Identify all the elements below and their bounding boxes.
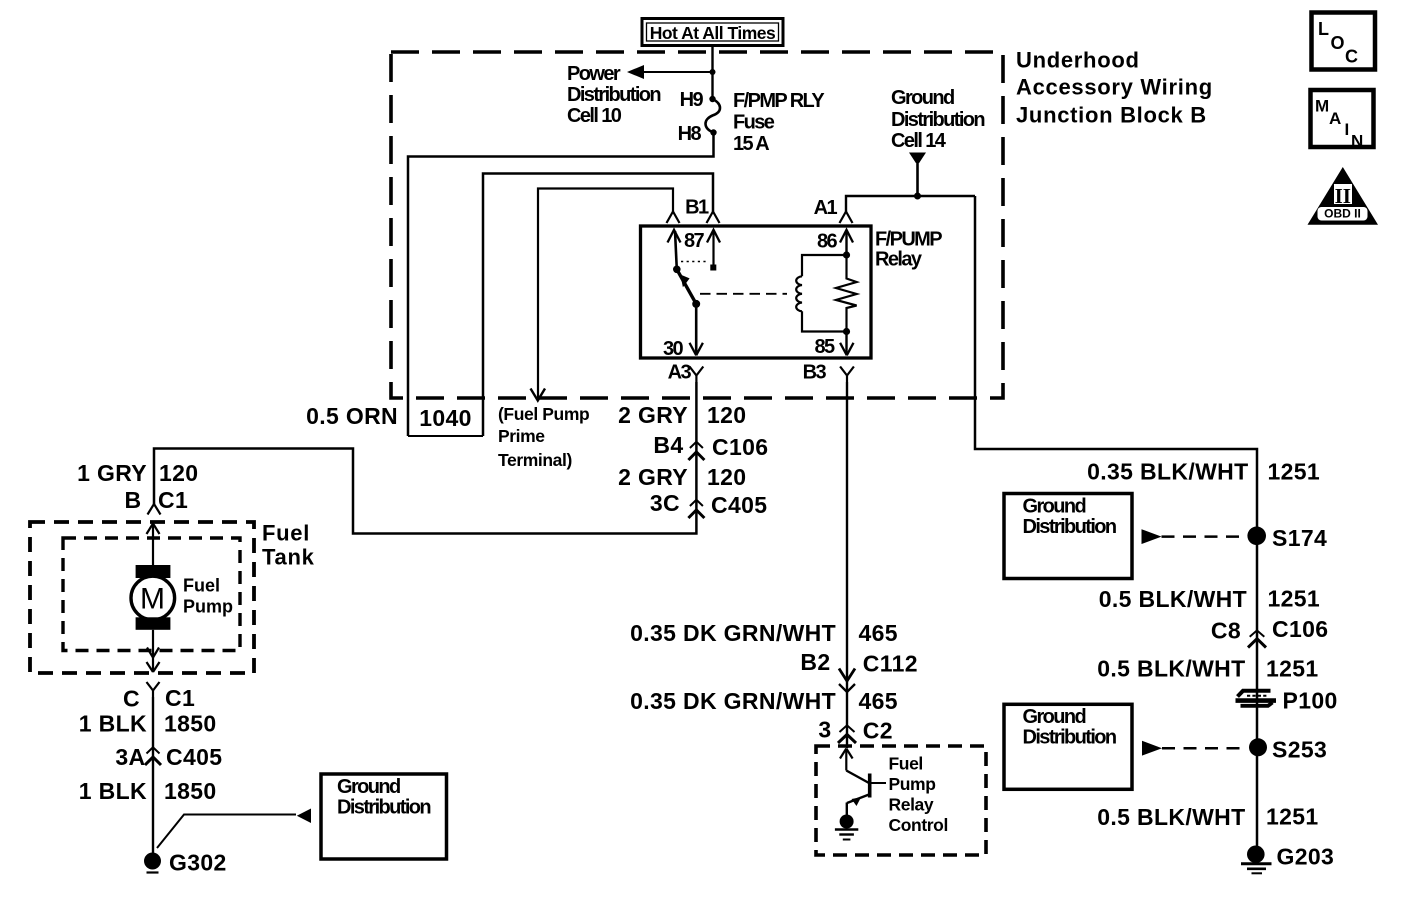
svg-text:1251: 1251: [1266, 804, 1319, 830]
relay pin 30: [663, 304, 703, 360]
svg-text:Underhood: Underhood: [1016, 48, 1140, 73]
svg-text:Fuel: Fuel: [183, 576, 220, 596]
connector 3 C2: [818, 717, 893, 744]
connector half above relay pin 87: [667, 212, 680, 224]
wire 1 BLK 1850 to G302: [152, 697, 154, 853]
label 0.5 BLK/WHT 1251: [1099, 586, 1320, 613]
svg-text:L: L: [1318, 19, 1329, 39]
svg-text:Distribution: Distribution: [337, 797, 430, 819]
svg-text:1850: 1850: [164, 778, 217, 804]
svg-text:C1: C1: [165, 685, 195, 711]
label (Fuel Pump Prime Terminal): [498, 404, 589, 470]
relay linkage dashed line: [700, 293, 787, 295]
svg-text:C405: C405: [166, 744, 222, 770]
svg-text:C112: C112: [863, 651, 918, 677]
svg-text:B3: B3: [803, 362, 827, 384]
junction block dashed box: Underhood Accessory Wiring Junction Block B: [391, 52, 1003, 398]
relay pin 85: [814, 332, 853, 359]
wire branch to left Ground Distribution: [157, 809, 311, 849]
wire from Hot At All Times to fuse H9: [711, 46, 713, 100]
svg-text:Tank: Tank: [262, 545, 315, 570]
connector A1: [814, 197, 853, 223]
svg-text:2 GRY: 2 GRY: [618, 464, 688, 490]
label 1 BLK 1850 second: [79, 778, 217, 804]
label Underhood Accessory Wiring Junction Block B: [1016, 48, 1213, 128]
arrow from Ground Distribution Cell 14: [909, 153, 926, 166]
legend OBD II triangle: [1308, 167, 1379, 225]
svg-text:Terminal): Terminal): [498, 450, 572, 470]
svg-text:F/PUMP: F/PUMP: [875, 229, 942, 251]
fuse element: [705, 99, 720, 133]
svg-text:B4: B4: [653, 432, 683, 458]
connector A3: [668, 362, 704, 384]
svg-text:B1: B1: [685, 197, 709, 219]
svg-text:(Fuel Pump: (Fuel Pump: [498, 404, 589, 424]
svg-text:465: 465: [859, 688, 898, 714]
svg-text:Pump: Pump: [183, 597, 233, 617]
svg-text:120: 120: [707, 402, 746, 428]
svg-text:Fuel: Fuel: [889, 754, 923, 774]
svg-text:F/PMP RLY: F/PMP RLY: [733, 90, 825, 112]
label 1 BLK 1850: [79, 711, 217, 737]
svg-text:Control: Control: [889, 815, 948, 835]
svg-text:N: N: [1351, 132, 1363, 151]
dashed reference arrow to S253: [1142, 741, 1248, 756]
svg-text:85: 85: [814, 336, 835, 358]
connector 3C C405: [650, 490, 768, 518]
svg-text:C106: C106: [712, 434, 768, 460]
fuel tank inner dashed box: [63, 538, 240, 651]
svg-text:B: B: [125, 487, 142, 513]
transistor Q1 fuel pump relay control: [840, 749, 886, 816]
ground inside control box: [835, 815, 858, 840]
label F/PMP RLY Fuse 15 A: [733, 90, 825, 155]
relay U1 F/PUMP Relay box: [641, 226, 872, 358]
svg-text:0.35 BLK/WHT: 0.35 BLK/WHT: [1087, 459, 1248, 485]
svg-text:Fuel: Fuel: [262, 521, 310, 546]
svg-text:87: 87: [684, 230, 705, 252]
junction dot at power distribution tap: [710, 69, 716, 75]
svg-text:G302: G302: [169, 850, 227, 876]
svg-text:Prime: Prime: [498, 426, 545, 446]
svg-text:H8: H8: [678, 123, 702, 145]
svg-text:A: A: [1329, 109, 1341, 128]
wire 0.5 ORN from fuse H8 down-left through 1040 label: [408, 133, 714, 437]
label Ground Distribution Cell 14: [891, 87, 984, 152]
svg-text:1040: 1040: [419, 405, 472, 431]
relay blade lower dot: [692, 300, 700, 308]
svg-text:O: O: [1331, 33, 1345, 53]
fuel pump motor M1: [131, 565, 175, 630]
label 0.5 BLK/WHT 1251 second: [1097, 656, 1318, 682]
svg-text:120: 120: [159, 460, 198, 486]
right Ground Distribution box lower: [1004, 704, 1132, 789]
ground G203: [1241, 844, 1334, 874]
svg-text:2 GRY: 2 GRY: [618, 402, 688, 428]
dotted line between relay contacts: [681, 261, 708, 263]
fuse F/PMP RLY 15A terminal H9: [680, 89, 716, 111]
svg-text:C: C: [123, 686, 140, 712]
wire 2 GRY 120 from A3 to fuel tank: [154, 382, 696, 534]
svg-text:3: 3: [818, 717, 831, 743]
svg-text:C405: C405: [711, 492, 767, 518]
label 0.5 BLK/WHT 1251 third: [1097, 804, 1318, 831]
svg-text:S253: S253: [1272, 737, 1327, 763]
connector 3A C405: [115, 744, 222, 770]
label 0.35 DK GRN/WHT 465: [630, 620, 898, 646]
relay coil node bottom dot: [843, 328, 850, 335]
svg-text:Distribution: Distribution: [891, 109, 984, 131]
wire into fuel tank with arrow: [147, 524, 160, 566]
svg-text:C1: C1: [158, 487, 188, 513]
svg-text:0.35 DK GRN/WHT: 0.35 DK GRN/WHT: [630, 688, 836, 714]
relay switch blade: [677, 269, 696, 304]
svg-text:S174: S174: [1272, 525, 1327, 551]
splice S174: [1247, 525, 1327, 551]
fuel tank outer dashed box: [30, 522, 254, 673]
svg-text:Distribution: Distribution: [567, 84, 660, 106]
svg-text:Hot At All Times: Hot At All Times: [650, 23, 776, 43]
wire out of fuel tank with arrows: [147, 630, 160, 672]
connector B4 C106: [653, 432, 768, 460]
dashed reference arrow to S174: [1142, 529, 1248, 544]
wire 0.35 DK GRN/WHT from B3 down to control: [846, 382, 848, 748]
svg-text:C: C: [1345, 47, 1358, 67]
fuel pump relay control dashed box: [816, 746, 986, 855]
svg-text:M: M: [140, 583, 165, 616]
label 0.35 BLK/WHT 1251: [1087, 459, 1320, 485]
svg-text:Relay: Relay: [889, 795, 934, 815]
wire fuel pump prime terminal branch: [531, 189, 674, 401]
wire arrow to Power Distribution Cell 10: [627, 65, 713, 79]
svg-text:0.5 BLK/WHT: 0.5 BLK/WHT: [1097, 804, 1245, 830]
label Fuel Pump (motor): [183, 576, 233, 617]
svg-text:Cell 14: Cell 14: [891, 130, 947, 152]
connector B2 C112: [800, 649, 918, 692]
splice S253: [1249, 737, 1327, 763]
label Fuel Pump Relay Control: [889, 754, 948, 836]
svg-text:B2: B2: [800, 649, 830, 675]
node Hot At All Times box: [642, 19, 783, 46]
svg-text:Ground: Ground: [1023, 496, 1086, 518]
label Fuel Tank: [262, 521, 315, 570]
svg-text:1251: 1251: [1268, 586, 1321, 612]
svg-text:Ground: Ground: [891, 87, 954, 109]
svg-text:P100: P100: [1283, 688, 1338, 714]
svg-text:C2: C2: [863, 718, 893, 744]
legend MAIN box: [1311, 90, 1374, 151]
wire riser to B1: [483, 174, 713, 437]
svg-text:1850: 1850: [164, 711, 217, 737]
svg-text:Fuse: Fuse: [733, 112, 775, 134]
connector B3: [803, 362, 854, 384]
svg-text:Junction Block B: Junction Block B: [1016, 103, 1207, 128]
relay pin 87: [668, 230, 705, 269]
svg-text:3C: 3C: [650, 490, 680, 516]
svg-text:C8: C8: [1211, 618, 1241, 644]
svg-text:H9: H9: [680, 89, 704, 111]
svg-text:1 GRY: 1 GRY: [77, 460, 147, 486]
left Ground Distribution box: [321, 774, 447, 859]
svg-text:15 A: 15 A: [733, 133, 769, 155]
svg-text:M: M: [1315, 97, 1329, 116]
ground G302: [144, 850, 227, 876]
junction dot on A1 feed: [914, 193, 921, 200]
svg-text:C106: C106: [1272, 616, 1328, 642]
connector B1: [685, 197, 719, 224]
legend LOC box: [1312, 13, 1376, 70]
svg-text:3A: 3A: [115, 744, 145, 770]
label F/PUMP Relay: [875, 229, 942, 271]
label 0.35 DK GRN/WHT 465 second: [630, 688, 898, 714]
svg-text:0.5 BLK/WHT: 0.5 BLK/WHT: [1099, 586, 1247, 612]
relay switch pivot dot: [673, 266, 681, 274]
svg-text:0.5 ORN: 0.5 ORN: [306, 403, 398, 429]
grommet P100: [1236, 688, 1338, 714]
label 1 GRY 120: [77, 460, 198, 486]
relay coil node top dot: [843, 251, 850, 258]
label Power Distribution Cell 10: [567, 63, 660, 127]
svg-text:1 BLK: 1 BLK: [79, 778, 147, 804]
svg-text:1 BLK: 1 BLK: [79, 711, 147, 737]
relay fixed contact stationary: [707, 230, 720, 271]
svg-text:Distribution: Distribution: [1023, 727, 1116, 749]
wire A1 feed: [846, 196, 975, 212]
svg-text:G203: G203: [1277, 844, 1335, 870]
svg-text:30: 30: [663, 338, 684, 360]
svg-text:Ground: Ground: [337, 776, 400, 798]
svg-text:Cell 10: Cell 10: [567, 105, 622, 127]
svg-text:Accessory Wiring: Accessory Wiring: [1016, 75, 1213, 100]
svg-text:Pump: Pump: [889, 774, 936, 794]
svg-text:OBD II: OBD II: [1324, 207, 1361, 221]
relay resistor: [836, 255, 857, 332]
svg-text:0.35 DK GRN/WHT: 0.35 DK GRN/WHT: [630, 620, 836, 646]
svg-text:Power: Power: [567, 63, 621, 85]
svg-text:I: I: [1345, 120, 1350, 139]
svg-text:465: 465: [859, 620, 898, 646]
wire Cell 14 down to A1 feed: [916, 164, 919, 196]
connector C8 C106: [1211, 616, 1329, 648]
svg-text:120: 120: [707, 464, 746, 490]
label 2 GRY 120 second: [618, 464, 746, 490]
svg-text:86: 86: [817, 231, 838, 253]
connector C C1: [123, 682, 195, 712]
connector B C1: [125, 487, 189, 515]
wire label box 1040 bottom edge: [408, 435, 483, 437]
svg-text:A1: A1: [814, 197, 838, 219]
svg-text:Distribution: Distribution: [1023, 516, 1116, 538]
svg-text:1251: 1251: [1268, 459, 1321, 485]
svg-text:1251: 1251: [1266, 656, 1319, 682]
right Ground Distribution box upper: [1004, 494, 1132, 579]
svg-text:0.5 BLK/WHT: 0.5 BLK/WHT: [1097, 656, 1245, 682]
svg-text:A3: A3: [668, 362, 692, 384]
wire from A1 to right riser: [975, 196, 1257, 846]
fuse terminal H8: [678, 123, 717, 145]
relay coil: [796, 255, 846, 332]
label 2 GRY 120: [618, 402, 746, 428]
svg-text:Relay: Relay: [875, 249, 923, 271]
relay pin 86: [817, 230, 853, 253]
svg-text:Ground: Ground: [1023, 706, 1086, 728]
svg-text:II: II: [1335, 184, 1351, 208]
